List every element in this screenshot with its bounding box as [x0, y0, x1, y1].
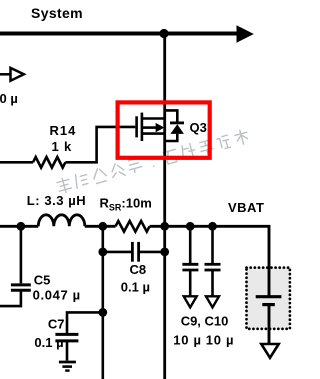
resistor R14 — [33, 157, 65, 168]
wire sense left vertical — [102, 226, 105, 379]
wire C7 to ground — [66, 341, 69, 361]
svg-text:0.047 µ: 0.047 µ — [33, 288, 81, 303]
watermark 微信公众号：硬件笔记本 — [56, 128, 251, 195]
node junction C8 left — [98, 248, 107, 257]
highlight box red — [118, 102, 210, 157]
wire inductor to RSR — [85, 225, 116, 228]
wire R14 to gate — [65, 127, 135, 162]
svg-text:10 µ: 10 µ — [206, 332, 234, 347]
ground C7 — [59, 362, 76, 371]
capacitor C10 plates — [205, 264, 221, 270]
svg-text:System: System — [31, 5, 83, 21]
wire R14 left lead — [0, 161, 33, 164]
ground C10 arrow — [206, 296, 219, 307]
node System arrow — [237, 25, 254, 42]
node junction L left — [17, 222, 26, 231]
transistor Q3 channel bar — [141, 113, 144, 141]
wire Q3 source tap — [142, 132, 165, 135]
svg-text:L: 3.3 µH: L: 3.3 µH — [27, 193, 86, 208]
wire C9 to ground — [189, 270, 192, 296]
svg-text:0.1 µ: 0.1 µ — [34, 335, 63, 350]
wire VBAT to battery — [268, 226, 271, 296]
wire C5 bottom lead — [0, 290, 21, 306]
battery BAT plates — [256, 297, 282, 305]
capacitor C5 plates — [11, 285, 31, 290]
resistor RSR — [116, 221, 150, 232]
svg-text:RSR:10m: RSR:10m — [100, 195, 152, 212]
diode Q3 bottom lead — [165, 134, 178, 141]
wire C7 branch — [67, 312, 103, 333]
node junction L right — [98, 222, 107, 231]
svg-text:C7: C7 — [48, 317, 65, 332]
wire main row left — [0, 225, 38, 228]
svg-text:VBAT: VBAT — [228, 200, 264, 215]
wire C5 vertical — [20, 226, 23, 283]
wire C8 right lead — [140, 251, 165, 254]
svg-text:Q3: Q3 — [190, 120, 207, 135]
svg-text:C5: C5 — [34, 272, 51, 287]
node junction main vertical row — [160, 222, 169, 231]
node junction C10 — [208, 222, 217, 231]
svg-text:10 µ: 10 µ — [173, 332, 201, 347]
svg-text:1 k: 1 k — [52, 139, 72, 154]
svg-text:R14: R14 — [50, 123, 77, 138]
diode Q3 triangle — [170, 124, 184, 134]
inductor L — [38, 215, 85, 227]
svg-text:0.1 µ: 0.1 µ — [121, 279, 150, 294]
wire RSR to VBAT rail — [150, 225, 271, 228]
diode Q3 cathode bar — [170, 122, 184, 125]
node Q3 arrowhead — [156, 123, 165, 132]
wire C10 to ground — [211, 270, 214, 296]
diode Q3 body top lead — [165, 110, 178, 122]
node junction C8 right — [160, 248, 169, 257]
wire main vertical — [163, 34, 166, 379]
ground battery arrow — [261, 344, 278, 358]
svg-text:C8: C8 — [130, 262, 147, 277]
node junction C9 — [186, 222, 195, 231]
node junction C7 — [98, 308, 107, 317]
wire top System rail — [0, 32, 238, 36]
wire Q3 arrow shaft — [143, 126, 157, 129]
wire battery to ground — [268, 305, 271, 344]
node input arrow left — [0, 68, 24, 81]
svg-text:C9, C10: C9, C10 — [181, 314, 229, 329]
wire Q3 drain tap — [142, 117, 165, 120]
capacitor C9 plates — [182, 264, 198, 270]
battery dashed box — [247, 268, 290, 329]
capacitor C7 plates — [55, 334, 78, 341]
svg-text:0 µ: 0 µ — [0, 91, 18, 106]
transistor Q3 PMOS gate bar — [135, 116, 138, 137]
capacitor C8 plates — [132, 242, 138, 262]
ground C9 arrow — [184, 296, 197, 307]
node junction top — [159, 29, 168, 38]
wire C8 left lead — [103, 251, 131, 254]
wire C9 vertical — [189, 226, 192, 263]
wire C10 vertical — [211, 226, 214, 263]
